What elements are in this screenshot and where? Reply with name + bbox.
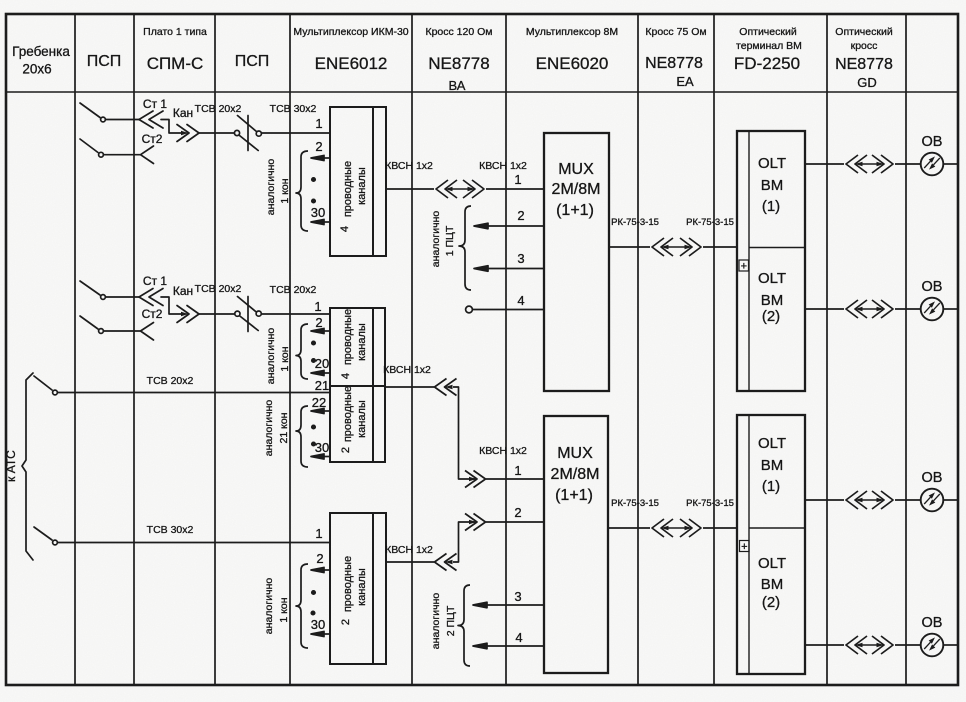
wire Kan to cross (199, 132, 235, 134)
svg-text:СПМ-С: СПМ-С (147, 54, 204, 73)
svg-text:(2): (2) (762, 308, 780, 325)
svg-text:2М/8М: 2М/8М (551, 466, 600, 483)
MUX1 pin 2 arrow (487, 225, 544, 227)
svg-text:BM: BM (761, 292, 784, 309)
chevron Kan (double right) (177, 125, 199, 142)
OB connector 2 (921, 298, 944, 321)
svg-text:4: 4 (339, 226, 351, 232)
wire MUX1 to OLT1 (RK-75) (609, 238, 737, 256)
column line x=506 (505, 14, 507, 685)
chevron St1 (double left) (139, 289, 163, 306)
svg-text:ВА: ВА (449, 78, 466, 93)
svg-text:каналы: каналы (356, 323, 368, 361)
svg-text:4: 4 (515, 630, 522, 645)
svg-text:+: + (741, 541, 747, 553)
header: Мультиплексор ИКМ-30 / ENE6012 (293, 26, 408, 73)
column line x=714 (713, 14, 715, 685)
column line x=290 (289, 14, 291, 685)
svg-text:2 ПЦТ: 2 ПЦТ (445, 605, 457, 636)
svg-text:BM: BM (761, 576, 784, 593)
svg-text:ТСВ 20x2: ТСВ 20x2 (270, 284, 317, 296)
chevron St2 (single left) (141, 323, 154, 341)
svg-text:1 кон: 1 кон (278, 597, 290, 622)
svg-text:20x6: 20x6 (22, 62, 51, 77)
svg-text:NE8778: NE8778 (428, 54, 489, 73)
svg-text:кросс: кросс (851, 40, 878, 52)
svg-text:проводные: проводные (342, 161, 354, 217)
OLT 2 (FD-2250 bottom) (737, 415, 805, 674)
svg-text:22: 22 (312, 395, 326, 410)
OB connector 3 (921, 489, 944, 512)
block2 dots top (312, 341, 315, 344)
svg-text:2: 2 (340, 447, 352, 453)
wire OLT2(1) to OB3 (805, 499, 844, 501)
svg-text:2М/8М: 2М/8М (552, 181, 601, 198)
svg-text:1: 1 (514, 172, 521, 187)
chevron left (block3 output) (435, 554, 457, 571)
MUX 1 (ENE6020 top) (544, 133, 609, 391)
svg-text:ОВ: ОВ (922, 134, 943, 150)
chevron Kan (double right) (177, 306, 199, 323)
svg-text:проводные: проводные (342, 386, 354, 442)
wire block1 output KVSN 1x2 (386, 180, 544, 198)
svg-text:Ст2: Ст2 (142, 132, 163, 146)
svg-text:1 кон: 1 кон (279, 346, 291, 371)
switch SA1 (to TSV 20x2 trunk) (34, 376, 52, 390)
svg-text:КВСН 1x2: КВСН 1x2 (385, 544, 433, 556)
MUX1 pin 3 arrow (487, 268, 544, 270)
svg-text:2: 2 (514, 505, 521, 520)
block2 pin 20 arrow (322, 372, 330, 374)
BLOCK 1: 4-wire channels unit (ENE6012 top) (330, 107, 386, 256)
svg-text:NE8778: NE8778 (835, 56, 893, 73)
MUX1 brace (analogous 1 PCT) (459, 206, 471, 290)
svg-text:20: 20 (315, 356, 329, 371)
MUX2 brace (analogous 2 PCT) (458, 585, 470, 666)
svg-text:каналы: каналы (356, 400, 368, 438)
block3 dots (312, 591, 315, 594)
svg-text:Кан: Кан (173, 284, 193, 298)
svg-text:(1): (1) (762, 198, 780, 215)
bidirectional cross symbol (RK-75) (652, 238, 701, 256)
svg-text:4: 4 (517, 293, 524, 308)
svg-text:аналогично: аналогично (430, 593, 442, 650)
svg-text:Оптический: Оптический (835, 26, 893, 38)
wire block2 output to MUX2 pin1 (385, 379, 544, 488)
MUX2 pin 3 arrow (487, 604, 544, 606)
svg-text:ТСВ 20x2: ТСВ 20x2 (147, 375, 194, 387)
bidirectional cross symbol (RK-75) (652, 519, 701, 537)
svg-text:каналы: каналы (356, 167, 368, 205)
optical cross symbol 3 (846, 491, 893, 509)
svg-text:ПСП: ПСП (87, 53, 122, 70)
svg-text:Гребенка: Гребенка (12, 44, 70, 59)
svg-text:30: 30 (311, 617, 325, 632)
svg-text:Кан: Кан (173, 106, 193, 120)
svg-text:ТСВ 30x2: ТСВ 30x2 (147, 524, 194, 536)
svg-text:ОВ: ОВ (922, 470, 943, 486)
svg-text:FD-2250: FD-2250 (734, 54, 800, 73)
svg-text:NE8778: NE8778 (645, 55, 703, 72)
svg-text:GD: GD (857, 75, 877, 90)
svg-text:BM: BM (761, 457, 784, 474)
wire OLT1(2) to OB2 (805, 308, 844, 310)
svg-text:КВСН 1x2: КВСН 1x2 (385, 160, 433, 172)
svg-text:(1+1): (1+1) (556, 202, 594, 219)
block3 pin 2 arrow (322, 569, 330, 571)
svg-text:2: 2 (316, 551, 323, 566)
BLOCK 3: 2-wire channels unit (ENE6012 bottom) (330, 513, 386, 664)
bracket to ATC (22, 373, 33, 560)
svg-text:(2): (2) (762, 594, 780, 611)
plus box OLT1 (739, 260, 749, 271)
block2 dots bottom (312, 425, 315, 428)
block1 brace (296, 151, 308, 231)
svg-text:аналогично: аналогично (263, 578, 275, 635)
wire St2 (104, 330, 141, 332)
chevron right (MUX2 pin2) (465, 514, 486, 531)
svg-text:РК-75-3-15: РК-75-3-15 (611, 498, 659, 509)
svg-text:+: + (741, 261, 747, 273)
svg-text:1: 1 (315, 526, 322, 541)
svg-text:Ст 1: Ст 1 (143, 97, 167, 111)
column line x=412 (411, 14, 413, 685)
block2 pin 2 arrow (322, 330, 330, 332)
optical cross symbol 2 (846, 300, 893, 318)
group 2: switch St2 (80, 316, 98, 329)
MAIN SCHEMATIC (22, 103, 330, 560)
block3 pin 30 arrow (322, 633, 330, 635)
left area labels (4, 97, 317, 536)
chevron right (MUX2 pin1) (465, 471, 486, 488)
svg-text:РК-75-3-15: РК-75-3-15 (611, 217, 659, 228)
svg-text:OLT: OLT (758, 270, 786, 287)
svg-text:Кросс 120 Ом: Кросс 120 Ом (425, 26, 492, 38)
wire St1 (106, 296, 140, 298)
header: Оптический кросс / NE8778 GD (835, 26, 893, 90)
wire TSV 20x2 trunk (58, 392, 331, 394)
header: Кросс 75 Ом / NE8778 EA (645, 26, 707, 89)
svg-text:Кросс 75 Ом: Кросс 75 Ом (645, 26, 706, 38)
OLT 1 (FD-2250 top) (737, 131, 805, 391)
svg-text:OLT: OLT (758, 155, 786, 172)
block3 brace (296, 564, 308, 648)
svg-text:ПСП: ПСП (235, 53, 270, 70)
svg-text:1: 1 (514, 463, 521, 478)
svg-text:аналогично: аналогично (430, 211, 442, 268)
wire block3 output to MUX2 pin2 (386, 514, 544, 571)
wire St2 (104, 154, 141, 156)
svg-text:проводные: проводные (342, 309, 354, 365)
MUX2 pin 4 arrow (487, 645, 544, 647)
group 1: switch St1 (80, 103, 100, 118)
svg-text:ТСВ 30x2: ТСВ 30x2 (270, 103, 317, 115)
wire cross to block2 pin1 (261, 313, 330, 315)
svg-text:Плато 1 типа: Плато 1 типа (143, 26, 207, 38)
svg-text:ТСВ 20x2: ТСВ 20x2 (195, 103, 242, 115)
svg-text:Мультиплексор 8М: Мультиплексор 8М (526, 26, 618, 38)
svg-text:аналогично: аналогично (265, 328, 277, 385)
svg-text:Ст 1: Ст 1 (143, 274, 167, 288)
group 1: switch St2 (80, 139, 98, 153)
svg-text:MUX: MUX (558, 161, 594, 178)
svg-text:Оптический: Оптический (739, 26, 797, 38)
svg-text:ТСВ 20x2: ТСВ 20x2 (195, 283, 242, 295)
optical links OLT to OB (805, 155, 958, 654)
wire Kan to cross (199, 313, 235, 315)
wire OLT2(2) to OB4 (805, 644, 844, 646)
svg-text:каналы: каналы (356, 568, 368, 606)
switch SA2 (to TSV 30x2 trunk) (34, 527, 52, 540)
header: Мультиплексор 8М / ENE6020 (526, 26, 618, 73)
svg-text:30: 30 (315, 440, 329, 455)
svg-text:1: 1 (315, 116, 322, 131)
block2 brace top (296, 324, 308, 379)
svg-text:1: 1 (314, 299, 321, 314)
wire step St1 to Kan (161, 120, 181, 134)
header: Оптический терминал ВМ / FD-2250 (734, 26, 802, 73)
wire MUX2 to OLT2 (RK-75) (608, 519, 737, 537)
svg-text:3: 3 (514, 589, 521, 604)
optical cross symbol 4 (846, 636, 893, 654)
svg-text:КВСН 1x2: КВСН 1x2 (479, 445, 527, 457)
svg-text:проводные: проводные (342, 556, 354, 612)
svg-text:2: 2 (340, 619, 352, 625)
svg-text:Мультиплексор ИКМ-30: Мультиплексор ИКМ-30 (293, 26, 408, 38)
svg-text:ENE6020: ENE6020 (536, 54, 609, 73)
svg-text:MUX: MUX (557, 445, 593, 462)
svg-text:2: 2 (315, 139, 322, 154)
svg-text:OLT: OLT (758, 555, 786, 572)
svg-text:Ст2: Ст2 (142, 307, 163, 321)
header separator line (6, 91, 958, 93)
svg-text:ОВ: ОВ (922, 279, 943, 295)
svg-text:терминал ВМ: терминал ВМ (736, 40, 802, 52)
svg-text:2: 2 (315, 315, 322, 330)
cross-connect symbol group 2 (235, 311, 240, 316)
block1 pin 2 arrow (322, 157, 330, 159)
optical cross symbol 1 (846, 155, 893, 173)
block2 pin 30 arrow (322, 456, 330, 458)
chevron left (block2 output) (435, 379, 457, 396)
svg-text:21: 21 (315, 378, 329, 393)
column line x=215 (214, 14, 216, 685)
cross-connect symbol group 1 (234, 130, 239, 135)
svg-text:к АТС: к АТС (4, 450, 18, 482)
header: Плато 1 типа / СПМ-С (143, 26, 207, 73)
plus box OLT2 (740, 541, 750, 552)
svg-text:ЕА: ЕА (676, 74, 694, 89)
svg-text:21 кон: 21 кон (278, 412, 290, 443)
column line x=134 (133, 14, 135, 685)
svg-text:аналогично: аналогично (263, 400, 275, 457)
wire OLT1(1) to OB1 (805, 163, 844, 165)
column line x=75 (74, 14, 76, 685)
svg-text:ОВ: ОВ (922, 615, 943, 631)
svg-text:аналогично: аналогично (265, 159, 277, 216)
column line x=906 (905, 14, 907, 685)
wire TSV 30x2 trunk (58, 542, 331, 544)
svg-text:1 кон: 1 кон (279, 178, 291, 203)
svg-text:КВСН 1x2: КВСН 1x2 (383, 364, 431, 376)
OB connector 4 (921, 634, 944, 657)
svg-text:4: 4 (340, 373, 352, 379)
column line x=638 (637, 14, 639, 685)
svg-text:BM: BM (761, 177, 784, 194)
svg-text:30: 30 (311, 205, 325, 220)
svg-text:ENE6012: ENE6012 (315, 54, 388, 73)
svg-text:(1): (1) (762, 478, 780, 495)
OB connector 1 (921, 153, 944, 176)
block2 pin 22 arrow (322, 410, 330, 412)
MUX 2 (ENE6020 bottom) (544, 416, 608, 673)
wire St1 (106, 119, 140, 121)
block1 pin 30 arrow (322, 221, 330, 223)
group 2: switch St1 (80, 281, 100, 295)
bidirectional cross symbol (KVSN) (436, 180, 484, 198)
chevron St1 (double left) (139, 111, 163, 128)
svg-text:РК-75-3-15: РК-75-3-15 (686, 217, 734, 228)
BLOCK 2: 4-wire + 2-wire channels unit (ENE6012 middle) (330, 308, 385, 462)
block1 dots (312, 178, 315, 181)
svg-text:КВСН 1x2: КВСН 1x2 (479, 160, 527, 172)
svg-text:OLT: OLT (758, 435, 786, 452)
svg-text:2: 2 (517, 208, 524, 223)
svg-text:1 ПЦТ: 1 ПЦТ (444, 225, 456, 256)
header: Гребенка 20x6 (12, 44, 70, 77)
MUX1 pin 4 wire with circle (466, 306, 473, 313)
wire step St1 to Kan (161, 297, 181, 314)
svg-text:(1+1): (1+1) (555, 487, 593, 504)
block2 brace bottom (296, 406, 308, 467)
svg-text:3: 3 (517, 251, 524, 266)
wire cross to block1 pin1 (261, 132, 330, 134)
header: Кросс 120 Ом / NE8778 BA (425, 26, 492, 93)
svg-text:РК-75-3-15: РК-75-3-15 (686, 498, 734, 509)
column line x=827 (826, 14, 828, 685)
chevron St2 (single left) (141, 146, 154, 164)
